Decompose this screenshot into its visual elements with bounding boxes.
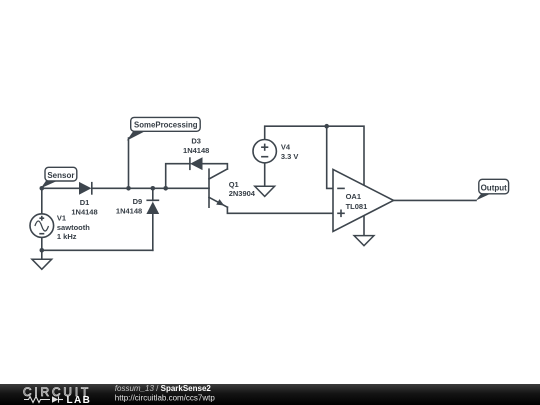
svg-text:Sensor: Sensor	[47, 171, 74, 180]
svg-text:SomeProcessing: SomeProcessing	[134, 120, 198, 130]
svg-text:1N4148: 1N4148	[116, 206, 142, 215]
svg-text:TL081: TL081	[346, 202, 368, 211]
svg-text:LAB: LAB	[67, 395, 92, 405]
svg-text:1 kHz: 1 kHz	[57, 232, 77, 241]
svg-text:1N4148: 1N4148	[71, 207, 97, 216]
svg-text:D9: D9	[133, 197, 143, 206]
svg-text:2N3904: 2N3904	[229, 189, 256, 198]
svg-text:1N4148: 1N4148	[183, 146, 209, 155]
svg-text:D3: D3	[191, 137, 201, 146]
svg-text:V1: V1	[57, 214, 66, 223]
svg-text:3.3 V: 3.3 V	[281, 152, 299, 161]
svg-text:http://circuitlab.com/ccs7wtp: http://circuitlab.com/ccs7wtp	[115, 394, 216, 403]
svg-text:fossum_13 / SparkSense2: fossum_13 / SparkSense2	[115, 384, 212, 393]
svg-text:V4: V4	[281, 142, 291, 151]
svg-text:OA1: OA1	[346, 192, 361, 201]
svg-text:D1: D1	[80, 198, 90, 207]
svg-text:sawtooth: sawtooth	[57, 223, 90, 232]
svg-text:Q1: Q1	[229, 180, 239, 189]
svg-text:Output: Output	[481, 184, 508, 193]
